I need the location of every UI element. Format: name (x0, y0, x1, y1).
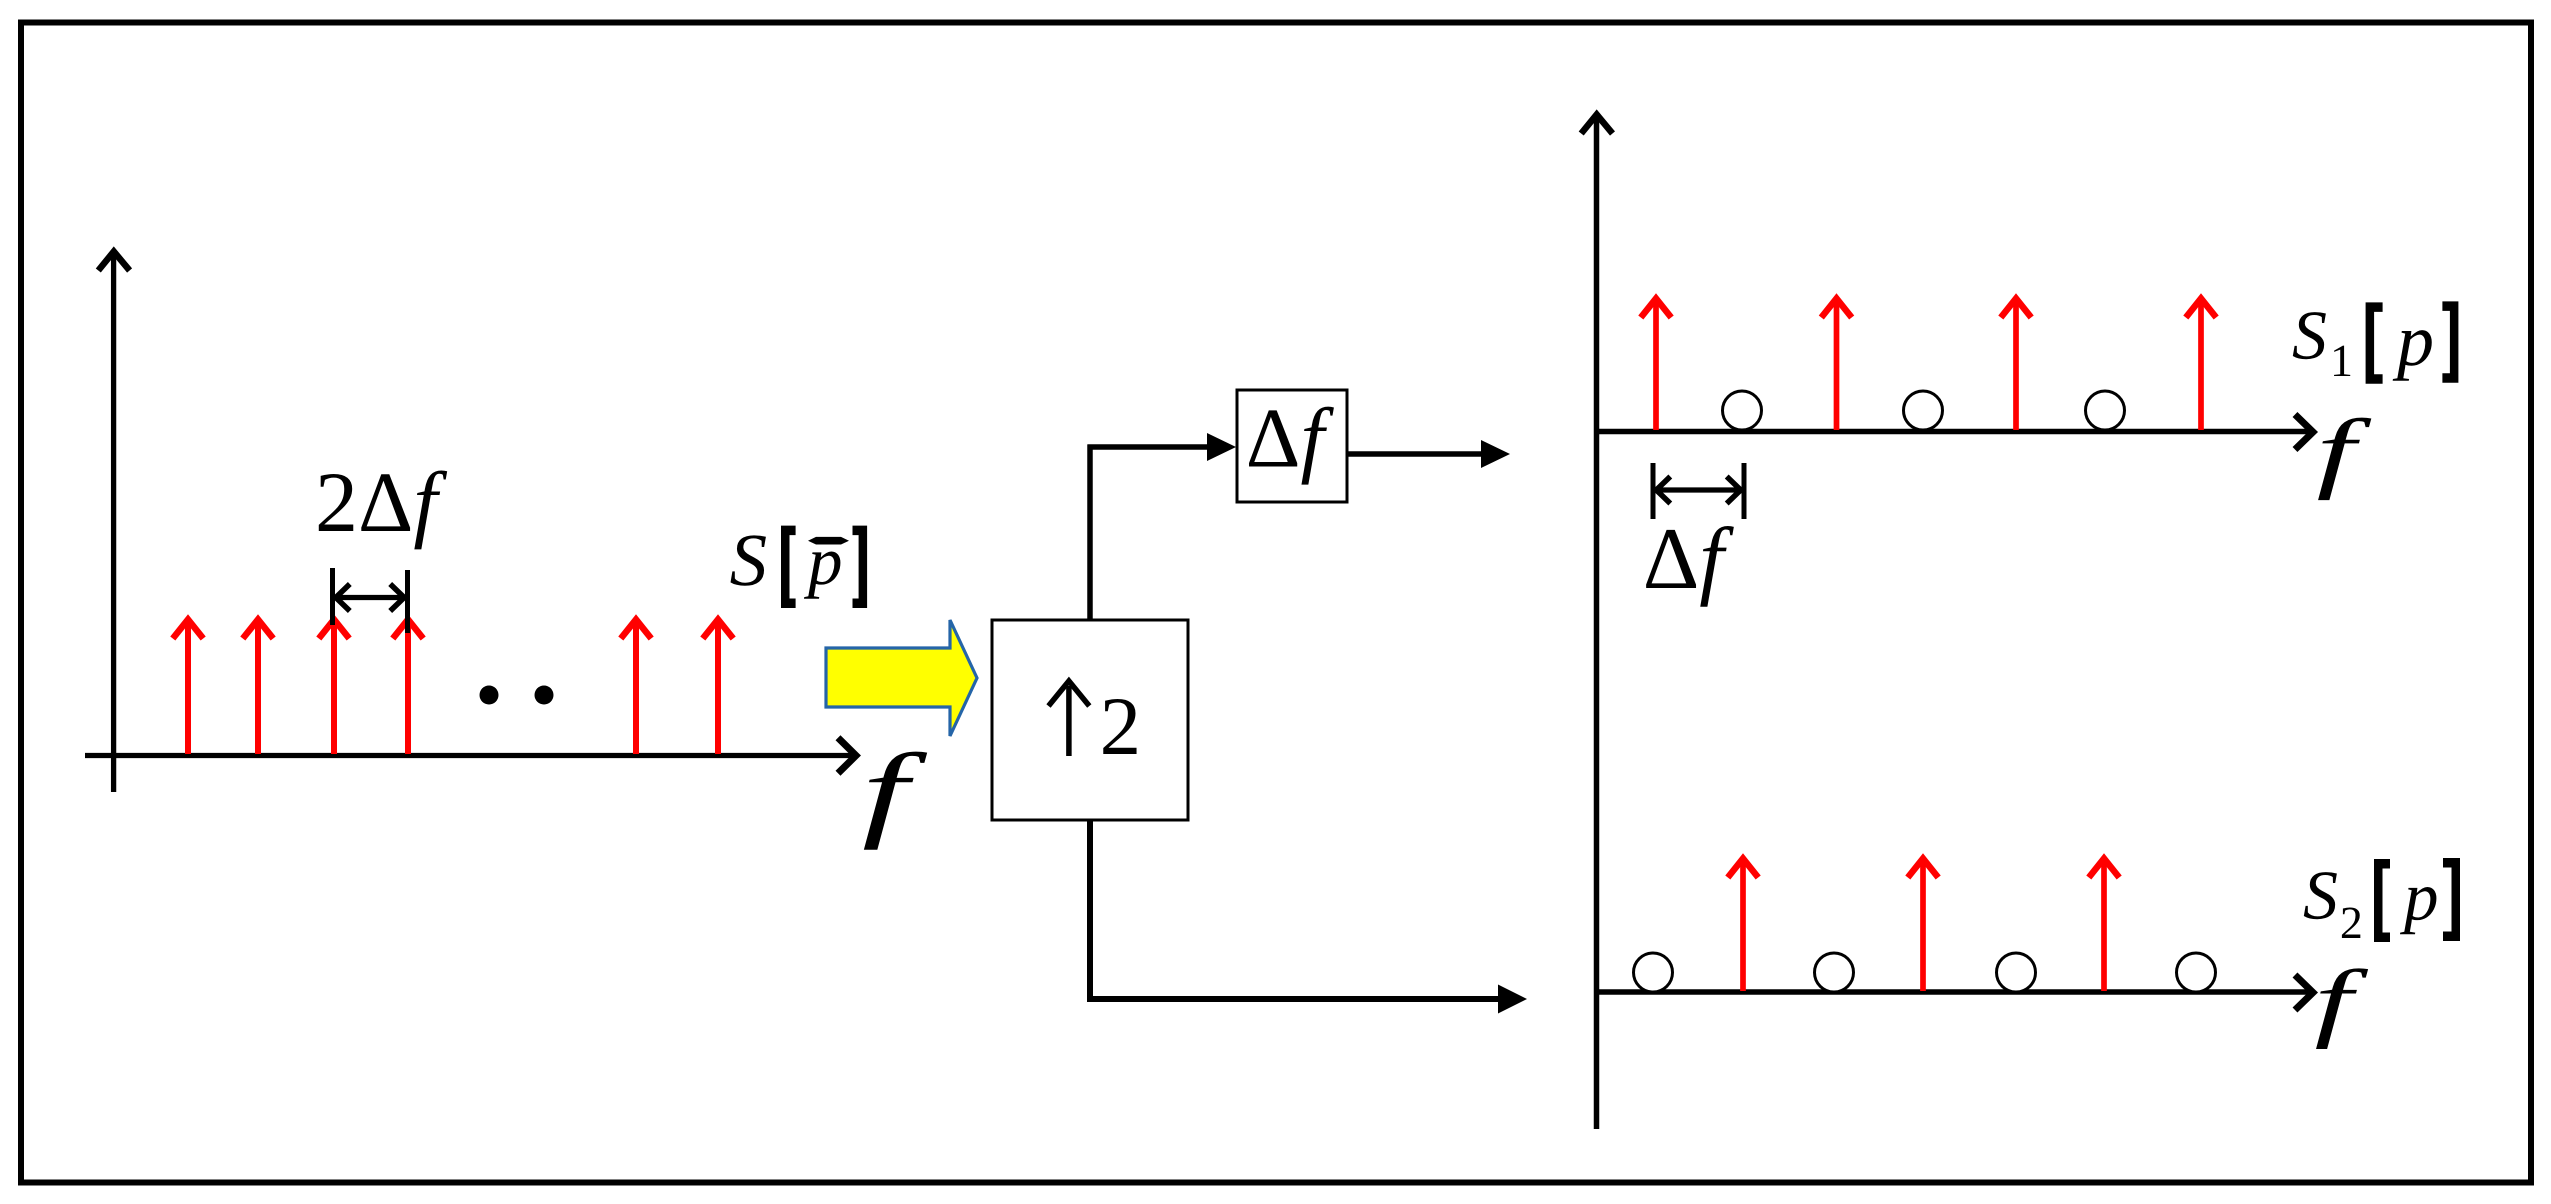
svg-text:p: p (2392, 300, 2434, 382)
S2[p] label (2303, 857, 2460, 948)
S1[p] label (2292, 297, 2458, 386)
svg-text:2: 2 (2340, 897, 2363, 948)
svg-text:p: p (2399, 858, 2439, 934)
svg-text:p: p (803, 523, 843, 599)
svg-text:2Δf: 2Δf (315, 454, 447, 550)
impulse 3 (left plot) (319, 620, 349, 755)
impulse 4 (left plot) (393, 620, 423, 755)
upper spectrum horizontal axis f (1596, 415, 2313, 450)
impulse 2 (lower right) (1908, 859, 1938, 992)
wire out of delta-f block (1347, 440, 1510, 468)
upsampler label up-arrow 2 (1049, 680, 1142, 772)
impulse 3 (upper right) (2001, 299, 2031, 431)
delta-f dimension double arrow (upper right) (1656, 477, 1741, 504)
right tall vertical axis (1581, 115, 1612, 1130)
2delta-f dimension left tick (330, 568, 335, 625)
svg-text:S: S (730, 519, 768, 602)
zero circle 2 (lower right) (1815, 953, 1854, 992)
svg-text:2: 2 (1100, 680, 1142, 772)
impulse 4 (upper right) (2186, 299, 2216, 431)
zero circle 1 (lower right) (1634, 953, 1673, 992)
ellipsis dot 1 (480, 686, 499, 705)
zero circle 3 (lower right) (1997, 953, 2036, 992)
svg-text:S: S (2292, 297, 2327, 374)
2delta-f dimension right tick (405, 570, 410, 633)
lower spectrum horizontal axis f (1596, 975, 2313, 1010)
left spectrum horizontal axis f (85, 738, 856, 774)
impulse 1 (lower right) (1728, 859, 1758, 992)
impulse 1 (left plot) (173, 620, 203, 755)
impulse 3 (lower right) (2089, 859, 2119, 992)
svg-text:Δf: Δf (1643, 511, 1735, 608)
delta-f dimension right tick (upper right) (1742, 463, 1747, 519)
delta-f shift block (1237, 390, 1347, 502)
zero circle 2 (upper right) (1904, 391, 1943, 430)
impulse 1 (upper right) (1641, 299, 1671, 431)
wire from upsampler top to delta-f block (1088, 433, 1237, 620)
impulse 6 (left plot) (703, 620, 733, 755)
wire from upsampler bottom to lower spectrum (1087, 820, 1527, 1014)
2delta-f dimension double arrow (336, 584, 404, 611)
zero circle 4 (lower right) (2177, 953, 2216, 992)
delta-f dimension left tick (upper right) (1651, 463, 1656, 519)
svg-text:Δf: Δf (1246, 391, 1335, 485)
upsampler block (992, 620, 1188, 820)
impulse 5 (left plot) (621, 620, 651, 755)
zero circle 3 (upper right) (2086, 391, 2125, 430)
zero circle 1 (upper right) (1723, 391, 1762, 430)
impulse 2 (left plot) (243, 620, 273, 755)
S[p-bar] label (730, 519, 868, 608)
svg-text:S: S (2303, 857, 2338, 934)
ellipsis dot 2 (535, 686, 554, 705)
svg-text:1: 1 (2330, 335, 2353, 386)
impulse 2 (upper right) (1821, 299, 1851, 431)
yellow block arrow (826, 620, 977, 736)
left spectrum vertical axis (98, 252, 129, 793)
